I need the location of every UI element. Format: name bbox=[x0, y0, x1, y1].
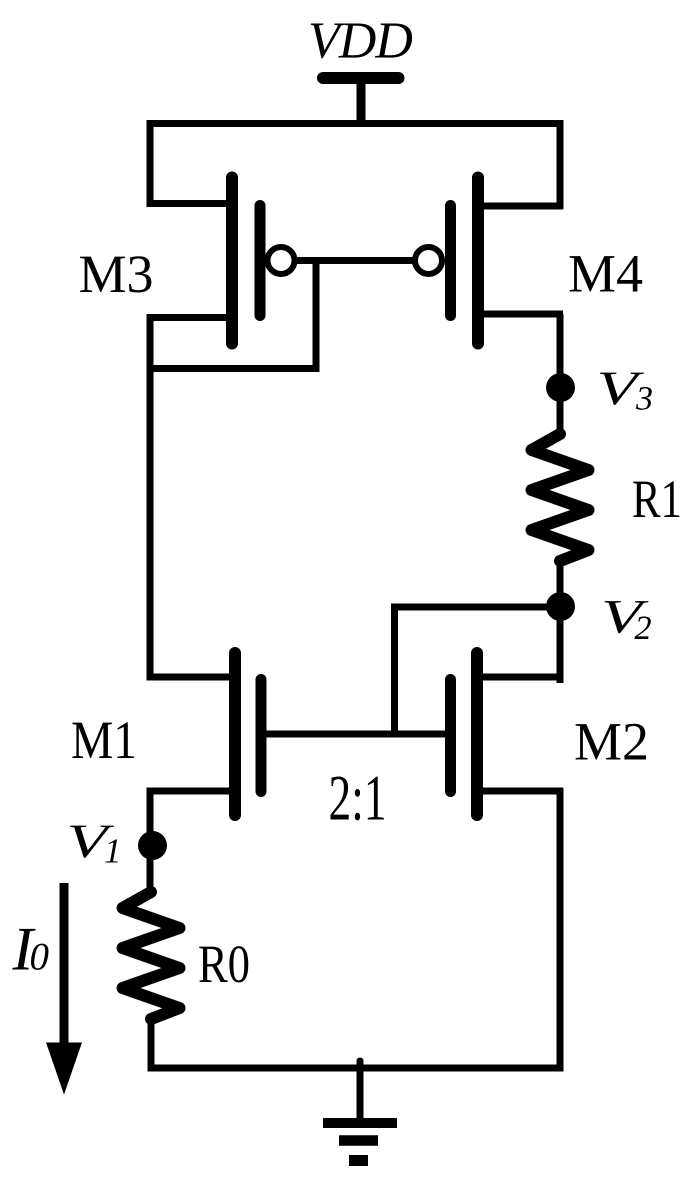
R0 label bbox=[199, 946, 248, 982]
M4 channel bar bbox=[472, 178, 484, 344]
wire R1 bottom to V2 bbox=[557, 558, 564, 607]
wire M4 drain down to R1 bbox=[557, 314, 564, 437]
M4 label bbox=[570, 256, 643, 292]
M2 channel bar bbox=[471, 653, 483, 815]
wire M1 source down to R0 bbox=[147, 791, 154, 895]
resistor R0 bbox=[123, 892, 180, 1019]
wire bottom rail and right spine up to M2 source bbox=[148, 788, 561, 1068]
M1 gate bar bbox=[256, 680, 267, 792]
V2 label bbox=[605, 601, 649, 633]
VDD label bbox=[311, 24, 412, 59]
M3 label bbox=[80, 256, 151, 292]
2:1 ratio label bbox=[331, 777, 384, 821]
M3 channel bar bbox=[226, 178, 238, 344]
M4 gate bar bbox=[445, 206, 456, 316]
wire M2 source stub bbox=[477, 788, 563, 795]
transistor M2 (NMOS) bbox=[451, 653, 564, 815]
transistor M3 (PMOS) bbox=[147, 178, 295, 344]
M3 gate bubble bbox=[268, 247, 295, 274]
R1 label bbox=[633, 481, 679, 517]
wire PMOS gate link bbox=[297, 257, 413, 264]
node V2 dot bbox=[546, 592, 575, 621]
V3 label bbox=[600, 373, 644, 405]
M2 label bbox=[576, 724, 646, 760]
wire M3 drain stub bbox=[147, 314, 233, 321]
node V1 dot bbox=[138, 831, 167, 860]
node V3 dot bbox=[546, 373, 575, 402]
wire M1 source stub bbox=[147, 788, 236, 795]
wire M3 source stub bbox=[147, 200, 233, 207]
wire M3 diode connection (gate to drain rail) bbox=[147, 260, 317, 369]
ground tap wire bbox=[357, 1061, 364, 1122]
ground symbol bbox=[323, 1123, 397, 1161]
wire V2 down to M2 drain bbox=[557, 607, 564, 683]
wire R0 to bottom rail bbox=[148, 1016, 155, 1072]
wire VDD tap bbox=[357, 80, 366, 127]
M2 gate bar bbox=[445, 680, 456, 792]
wire M1 drain stub bbox=[147, 674, 236, 681]
wire M2 drain stub bbox=[477, 674, 563, 681]
I0 label bbox=[12, 929, 35, 970]
wire V2 to gates of M1/M2 bbox=[395, 607, 561, 734]
V1 label bbox=[70, 826, 114, 858]
transistor M1 (NMOS) bbox=[147, 653, 262, 815]
M3 gate bar bbox=[255, 206, 266, 316]
M1 label bbox=[72, 722, 134, 758]
wire M4 source stub bbox=[478, 203, 563, 210]
M4 gate bubble bbox=[415, 247, 442, 274]
wire NMOS gate link bbox=[261, 731, 450, 738]
resistor R1 bbox=[532, 434, 589, 561]
wire top rail with left and right drops bbox=[150, 124, 560, 210]
M1 channel bar bbox=[229, 653, 241, 815]
current arrow I0 bbox=[46, 883, 82, 1095]
wire left vertical M3 drain to M1 drain bbox=[147, 318, 154, 681]
wire M4 drain stub bbox=[478, 311, 563, 318]
VDD power bar symbol bbox=[323, 72, 399, 84]
transistor M4 (PMOS) bbox=[415, 178, 563, 344]
